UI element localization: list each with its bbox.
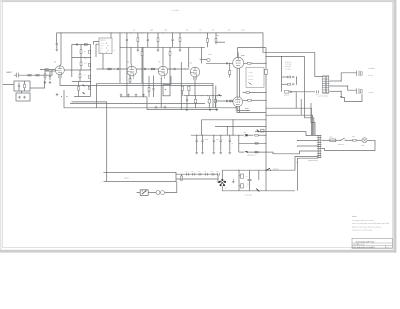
svg-text:22k: 22k xyxy=(133,30,136,32)
triode V4 12AX7 xyxy=(190,67,200,77)
svg-text:LAMP: LAMP xyxy=(361,145,365,147)
svg-text:150R: 150R xyxy=(352,136,355,138)
wire PS left vertical xyxy=(238,135,240,152)
svg-text:+: + xyxy=(223,139,224,141)
wire rail drop stub xyxy=(258,170,260,180)
wire vertical x147 xyxy=(146,97,148,110)
wire ext speaker line xyxy=(289,91,296,93)
wire PT tap 4 zigzag xyxy=(266,151,318,154)
wire trem rung 3 xyxy=(72,69,91,71)
wire vertical x161 xyxy=(160,78,162,108)
capacitor C12 xyxy=(186,98,188,100)
capacitor C17 filter xyxy=(202,135,204,140)
ground dropper chain xyxy=(126,47,128,97)
resistor R32 bias xyxy=(285,91,289,94)
ground pot 2 xyxy=(164,106,166,107)
wire mains feed rail xyxy=(72,102,107,172)
mains chassis box xyxy=(107,172,176,181)
svg-text:Output Tra: Output Tra xyxy=(285,61,291,63)
svg-text:8: Brn-Blk: 8: Brn-Blk xyxy=(285,66,291,68)
svg-text:DEPTH: DEPTH xyxy=(100,45,104,47)
wire to pilot xyxy=(356,139,362,141)
svg-text:220k: 220k xyxy=(164,30,167,32)
wire heater row low xyxy=(239,151,244,153)
capacitor C19 filter xyxy=(220,135,222,140)
capacitor C19 smoothing xyxy=(126,33,128,39)
node trem dots xyxy=(90,57,91,58)
svg-text:Load 8k: Load 8k xyxy=(248,72,253,74)
resistor R43 low xyxy=(255,151,258,153)
resistor R18 xyxy=(151,68,154,70)
wire trem rung 5 xyxy=(74,96,91,98)
wire heater tap row mid xyxy=(239,142,266,144)
svg-text:16+16: 16+16 xyxy=(241,30,245,32)
svg-text:N: N xyxy=(101,181,102,183)
wire selector entry xyxy=(218,174,219,182)
capacitor C11 coupling xyxy=(226,100,228,102)
svg-text:32+32: 32+32 xyxy=(205,139,209,141)
wire footswitch down xyxy=(102,54,104,70)
resistor R4 series xyxy=(28,74,31,76)
wire PT to fuse xyxy=(322,139,330,141)
capacitor C21 smoothing xyxy=(172,33,174,39)
resistor R30 screen feed xyxy=(207,33,209,39)
rectifier V7 GZ34 xyxy=(244,134,247,136)
wire V2-V3 coupling xyxy=(136,68,158,70)
footswitch box outline xyxy=(99,38,112,54)
output transformer T1 xyxy=(323,76,325,94)
resistor R21 xyxy=(194,99,196,103)
capacitor C7 coupling xyxy=(144,68,146,70)
resistor R6 trem xyxy=(84,44,87,46)
wire V5 grid feed top xyxy=(238,47,267,49)
speaker jack J3 xyxy=(356,88,358,94)
wire V6 screen xyxy=(237,107,239,111)
wire PI to V6 grid xyxy=(216,100,234,102)
resistor R40 dropper xyxy=(137,33,139,38)
svg-text:FUSE: FUSE xyxy=(329,137,333,139)
resistor R8 xyxy=(80,62,82,66)
svg-text:VIB: VIB xyxy=(84,58,86,60)
wire OT primary rail 1 xyxy=(266,51,315,53)
wire V6 heater row xyxy=(237,111,266,113)
resistor R33 xyxy=(255,134,258,136)
wire OT secondary tap 1 xyxy=(329,80,341,82)
resistor R22 xyxy=(208,99,210,103)
switch S2 standby xyxy=(266,170,267,171)
input ground box xyxy=(16,93,30,101)
capacitor C16 filter xyxy=(196,135,198,140)
wire selector line xyxy=(176,173,218,175)
wire staircase H2 xyxy=(266,115,313,135)
svg-text:SEL: SEL xyxy=(225,187,228,189)
svg-text:+: + xyxy=(244,186,245,188)
switch S1 mains xyxy=(340,140,341,141)
svg-text:Notes: Notes xyxy=(352,215,357,218)
svg-text:PED: PED xyxy=(100,52,103,54)
pot P2 xyxy=(207,58,210,61)
capacitor C24 electrolytic xyxy=(241,184,244,188)
resistor R31 screen feed xyxy=(215,33,217,39)
capacitor C110 filter xyxy=(229,135,231,140)
page left edge xyxy=(0,0,1,253)
ext speaker contact xyxy=(316,90,318,93)
wire V1 bottom pin xyxy=(59,74,61,85)
wire OT drop 1 link xyxy=(315,76,323,78)
wire V6 screen to rail xyxy=(237,110,250,112)
wire V6 pins xyxy=(235,106,237,110)
volume pot box xyxy=(163,85,170,96)
svg-text:a-a EL84: a-a EL84 xyxy=(248,76,253,78)
svg-text:MAINS SW: MAINS SW xyxy=(338,144,345,146)
selector tap 2 xyxy=(192,173,194,176)
input jack J1 xyxy=(16,73,18,78)
capacitor C1 input xyxy=(18,84,20,86)
fuse F1 xyxy=(330,139,336,142)
diode D4 xyxy=(256,189,259,192)
wire V2 plate feed xyxy=(130,47,132,64)
capacitor C6 coupling xyxy=(116,68,118,70)
wire V1 plate feed xyxy=(60,33,62,64)
wire staircase H4 xyxy=(311,103,315,135)
wire V5 plate to rail xyxy=(237,52,239,57)
wire OT drop 1 xyxy=(314,52,316,76)
ground C2 xyxy=(56,48,58,49)
capacitor C2 decoupler xyxy=(56,33,58,44)
wire V4 to pot xyxy=(200,58,207,60)
wire pot ground rail xyxy=(147,109,218,111)
ground preamp left xyxy=(56,93,58,94)
wire plug to connector xyxy=(148,192,156,194)
wire staircase H1 xyxy=(266,108,311,135)
svg-text:+: + xyxy=(198,139,199,141)
page right edge xyxy=(393,0,396,253)
resistor R5 series xyxy=(36,74,39,76)
svg-text:4n7: 4n7 xyxy=(84,75,86,77)
wire staircase V1 xyxy=(295,93,297,109)
resistor R28 bias xyxy=(282,76,288,78)
wire ground rail long xyxy=(64,90,237,108)
wire B+ rail vertical xyxy=(265,48,267,70)
capacitor C5 trem xyxy=(75,43,77,45)
wire selector top path xyxy=(221,170,223,179)
svg-text:470k: 470k xyxy=(84,63,87,65)
wire B+ bus xyxy=(57,33,267,52)
title block frame xyxy=(352,238,392,248)
svg-text:1k5: 1k5 xyxy=(212,30,214,32)
capacitor C8 cathode bypass xyxy=(152,88,154,90)
resistor R36 xyxy=(180,174,182,176)
resistor R37 PI load xyxy=(181,86,183,90)
svg-text:STANDBY: STANDBY xyxy=(273,169,279,171)
wire staircase V2 xyxy=(300,99,302,115)
diode PI mark xyxy=(219,94,221,96)
diode D2 trem xyxy=(83,92,85,94)
capacitor C18 filter xyxy=(213,135,215,140)
ground OT common xyxy=(340,91,342,95)
wire selector bottom xyxy=(221,186,223,191)
resistor R23 small xyxy=(215,99,217,102)
svg-text:INPUT: INPUT xyxy=(6,71,13,74)
drawing frame border xyxy=(3,2,393,248)
ground symbols preamp xyxy=(120,94,122,95)
wire footswitch left link 1 xyxy=(94,42,100,45)
resistor R39 rail series xyxy=(265,69,268,74)
wire heater drop right 2 xyxy=(215,86,217,108)
wire standby run xyxy=(222,169,295,171)
wire OT secondary tap 2 xyxy=(329,85,347,87)
svg-text:SPEAKER: SPEAKER xyxy=(368,68,374,70)
resistor R17 V2 cathode xyxy=(129,74,131,78)
capacitor C9 coupling xyxy=(173,68,175,70)
mains terminal marks xyxy=(104,171,107,173)
wire PI to V5 grid xyxy=(206,62,233,64)
svg-text:Class AB: Class AB xyxy=(248,79,253,81)
resistor R12 xyxy=(89,63,91,66)
pilot lamp LP1 xyxy=(362,138,367,143)
wire PT tap 2 xyxy=(297,140,318,142)
wire trem down x96.5 xyxy=(96,83,98,108)
wire PI left vertical xyxy=(180,62,182,110)
ground PI 3 xyxy=(216,108,218,109)
wire cathode link xyxy=(45,70,55,72)
resistor R25 V5 out xyxy=(244,62,248,64)
wire bias row xyxy=(255,131,266,133)
resistor R19 dropper xyxy=(169,47,171,51)
triode V2 12AX7 xyxy=(127,66,137,76)
triode V3 12AX7 xyxy=(158,66,168,76)
title block line 2 xyxy=(352,245,392,247)
ground jack tip xyxy=(24,96,26,97)
wire footswitch left link 2 xyxy=(96,44,99,57)
ground pot 1 xyxy=(155,106,157,107)
mains plug P1 xyxy=(140,190,148,196)
wire box link xyxy=(21,91,23,93)
ground preamp rail xyxy=(120,96,147,98)
svg-text:1:1: 1:1 xyxy=(387,247,389,249)
wire trem rung 2 xyxy=(72,57,91,59)
resistor R34 mid xyxy=(255,143,258,145)
title block dividers xyxy=(385,246,387,249)
ground dropper chain 2 xyxy=(142,47,144,97)
selector tap 3 xyxy=(198,173,200,176)
capacitor C10 coupling xyxy=(226,62,228,64)
resistor R7 xyxy=(80,50,82,54)
wire primary bottom xyxy=(222,190,295,192)
svg-text:6.3V: 6.3V xyxy=(296,162,299,164)
resistor R20 V3 cathode xyxy=(148,76,150,88)
node footswitch pin xyxy=(120,47,121,48)
page top edge xyxy=(0,0,397,2)
resistor R3 cathode xyxy=(44,71,46,74)
capacitor C25 xyxy=(249,170,251,179)
wire plug lead xyxy=(137,192,141,194)
selector tap 1 xyxy=(186,173,188,176)
wire vertical x171 xyxy=(170,76,172,85)
wire bus to footswitch box xyxy=(110,33,112,38)
wire input feed line xyxy=(3,84,14,86)
wire OT primary rail 2 xyxy=(266,56,305,58)
voltage selector SW3 xyxy=(221,179,223,181)
svg-text:16: Brn-Blk: 16: Brn-Blk xyxy=(285,64,292,66)
note box impedance xyxy=(246,68,264,88)
wire pilot return xyxy=(322,140,376,150)
wire V4 plate feed xyxy=(188,47,190,67)
bias cluster left rail xyxy=(281,57,283,92)
page bottom edge xyxy=(0,250,396,253)
resistor R1 grid stopper xyxy=(45,69,48,71)
svg-text:OUTPUT TRANS: OUTPUT TRANS xyxy=(318,96,328,98)
ground jack sleeve xyxy=(19,96,21,97)
svg-text:HEATERS 6.3V: HEATERS 6.3V xyxy=(247,155,256,157)
resistor R35 xyxy=(353,139,356,141)
diode D3 heater xyxy=(244,151,247,153)
varistor VR1 xyxy=(261,129,264,132)
wire jack return loop xyxy=(341,94,362,101)
capacitor C23 electrolytic xyxy=(241,174,244,178)
svg-text:10k: 10k xyxy=(186,30,189,32)
diode D1 trem xyxy=(83,84,85,86)
pentode V5 EL84 xyxy=(233,57,244,68)
wire V4 cathode down xyxy=(194,77,196,96)
svg-text:50+50: 50+50 xyxy=(247,184,251,186)
resistor R41 dropper xyxy=(157,33,159,38)
ground cathode C3 xyxy=(49,81,51,82)
svg-text:16 OHM: 16 OHM xyxy=(368,92,374,94)
tremolo ladder left rail xyxy=(71,45,73,78)
wire V6 plate row xyxy=(243,92,246,94)
wire input upper line xyxy=(40,69,55,71)
svg-text:FS: FS xyxy=(114,50,116,52)
title block line 1 xyxy=(352,242,392,244)
wire PI rail xyxy=(184,95,223,97)
wire rail y103.6 xyxy=(70,103,205,105)
tremolo ladder right rail xyxy=(90,45,92,97)
wire switch on xyxy=(345,139,352,141)
pentode V6 EL84 xyxy=(233,97,243,107)
resistor R42 dropper xyxy=(179,33,181,38)
wire PT tap 6 xyxy=(298,158,319,191)
wire sub-rail xyxy=(120,46,205,48)
wire selector lower xyxy=(176,178,218,180)
ground cathode R3 xyxy=(44,81,46,82)
svg-text:47k: 47k xyxy=(199,30,202,32)
input network box xyxy=(14,81,30,91)
svg-text:Or: Yellow: Or: Yellow xyxy=(285,68,291,70)
resistor R13 xyxy=(89,75,91,78)
power transformer T2 xyxy=(317,135,319,158)
selector tap 5 xyxy=(211,173,213,176)
speaker jack J2 xyxy=(356,71,358,76)
resistor R10 xyxy=(78,87,80,91)
wire V3 output xyxy=(167,68,189,70)
svg-text:1M: 1M xyxy=(84,51,86,53)
ground selector xyxy=(232,179,234,180)
svg-text:100k: 100k xyxy=(150,30,153,32)
selector tap 6 xyxy=(217,173,219,176)
wire fuse to switch xyxy=(336,139,341,141)
wire tube link verticals xyxy=(236,68,238,97)
ground sub-rail 1 xyxy=(137,47,139,49)
resistor R11 xyxy=(89,50,91,53)
svg-text:+: + xyxy=(244,176,245,178)
selector tap 4 xyxy=(205,173,207,176)
wire PT tap 5 xyxy=(295,157,318,171)
wire OT secondary tap 3 xyxy=(329,90,341,92)
resistor R24 grid xyxy=(229,63,231,70)
wire PS feed rail 1 xyxy=(202,119,267,121)
wire grid drop x120 xyxy=(119,33,121,83)
wire PT tap 3 xyxy=(297,145,318,147)
ground sub-rail 2 xyxy=(157,47,159,49)
ground sub-rail 3 xyxy=(179,47,181,49)
wire to cathode net xyxy=(30,80,45,88)
connector CON1 xyxy=(156,191,160,195)
svg-text:450V: 450V xyxy=(216,139,219,141)
svg-text:FOOT: FOOT xyxy=(100,48,103,50)
wire OT drop 2 staircase xyxy=(305,57,314,136)
capacitor C14 bias xyxy=(292,83,294,85)
resistor R14 xyxy=(88,86,90,89)
resistor R26 grid xyxy=(230,100,233,102)
svg-text:SPEED: SPEED xyxy=(100,43,104,45)
capacitor C13 bias xyxy=(292,76,294,78)
wire PT tap 1 xyxy=(266,131,306,133)
resistor R2 input load xyxy=(24,84,26,88)
svg-text:POWER TRANS: POWER TRANS xyxy=(308,160,318,162)
ground PI 2 xyxy=(209,108,211,109)
triode V1 EF86 xyxy=(55,66,64,75)
wire PS feed rail 2 xyxy=(215,126,266,128)
wire input lower line xyxy=(19,70,52,76)
wire V4 screen feed xyxy=(200,47,202,63)
wire PS bus xyxy=(191,134,244,136)
wire signal line V1-V2 xyxy=(97,68,128,70)
ground PI 1 xyxy=(186,108,188,109)
resistor R15 xyxy=(108,68,111,70)
svg-text:MAINS: MAINS xyxy=(124,177,129,179)
svg-text:220R 1W: 220R 1W xyxy=(284,95,290,97)
resistor R38 PI load xyxy=(188,86,190,90)
wire connector up xyxy=(165,182,177,193)
wire heater rail 2 xyxy=(60,85,213,87)
wire cap stubs xyxy=(239,175,241,177)
resistor R9 xyxy=(79,74,81,78)
svg-text:HT 350-0-350: HT 350-0-350 xyxy=(245,194,253,196)
svg-text:VIBRATO: VIBRATO xyxy=(100,40,106,42)
capacitor C3 cathode bypass xyxy=(49,74,51,76)
thermistor TH1 xyxy=(257,130,259,133)
svg-text:82k: 82k xyxy=(228,30,231,32)
wire trem rung 4 xyxy=(72,81,91,83)
resistor R27 V6 out xyxy=(243,99,248,101)
resistor R16 screen xyxy=(141,47,143,51)
wire PS feed mid drop xyxy=(232,120,234,135)
wire heater drop right 1 xyxy=(212,83,214,108)
wire heater rail 1 xyxy=(97,82,213,84)
resistor R29 bias xyxy=(282,83,288,85)
svg-text:GZ34: GZ34 xyxy=(243,132,247,134)
wire screen link xyxy=(216,41,225,43)
svg-text:EXT: EXT xyxy=(316,94,319,96)
wire primary left rail xyxy=(238,170,240,191)
capacitor C20 smoothing xyxy=(147,33,149,39)
wire trem top rung xyxy=(72,44,91,46)
wire V3 plate feed xyxy=(162,47,164,65)
wire V1 to trem xyxy=(64,69,72,71)
